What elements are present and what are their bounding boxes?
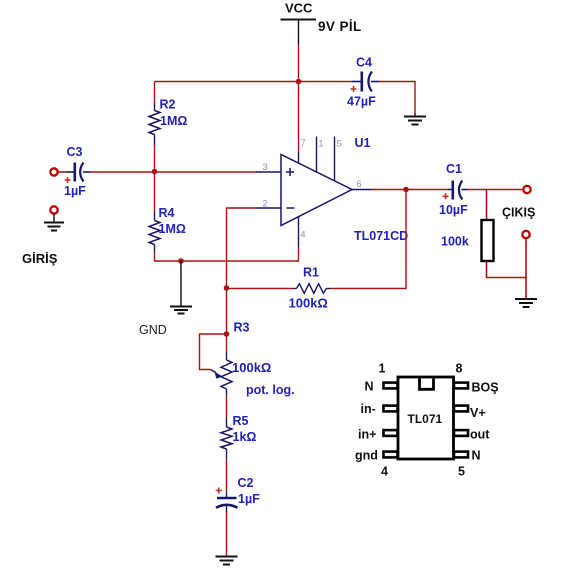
- capacitor C2: [216, 488, 238, 513]
- IC pin 7 pad: [454, 406, 468, 412]
- IC pin 2 pad: [384, 406, 398, 412]
- capacitor C1: [443, 181, 468, 200]
- svg-text:R4: R4: [159, 206, 175, 220]
- ground (output): [515, 299, 537, 307]
- svg-text:out: out: [470, 428, 490, 442]
- svg-text:BOŞ: BOŞ: [472, 381, 499, 395]
- svg-text:in-: in-: [361, 402, 376, 416]
- svg-text:TL071: TL071: [408, 412, 443, 426]
- node ground rail junction: [178, 258, 184, 264]
- wire R1 to output node: [330, 190, 406, 289]
- svg-text:R3: R3: [234, 321, 250, 335]
- resistor 100k load: [482, 220, 494, 261]
- ground (C2): [216, 557, 238, 565]
- svg-text:R5: R5: [233, 414, 249, 428]
- wire pin3: [155, 171, 257, 173]
- svg-text:6: 6: [357, 179, 362, 189]
- svg-text:TL071CD: TL071CD: [354, 229, 408, 243]
- resistor R2: [149, 103, 160, 145]
- svg-text:1kΩ: 1kΩ: [233, 430, 257, 444]
- input terminal 2: [50, 206, 57, 213]
- wire to output ground: [525, 278, 527, 300]
- IC pin 8 pad: [454, 383, 468, 389]
- wire R2 to input node: [154, 145, 156, 172]
- svg-text:10µF: 10µF: [439, 203, 468, 217]
- svg-text:C1: C1: [446, 162, 462, 176]
- svg-text:C4: C4: [356, 56, 372, 70]
- wire pin4 to ground rail: [298, 247, 300, 261]
- wire feedback node down to R3: [226, 288, 228, 334]
- wire pot wiper loop: [200, 334, 227, 370]
- IC pin 3 pad: [384, 430, 398, 436]
- svg-text:100k: 100k: [441, 235, 469, 249]
- ground (GND rail): [170, 261, 192, 314]
- wire C3 to input node: [90, 171, 155, 173]
- potentiometer R3: [211, 334, 233, 395]
- IC pin 4 pad: [384, 452, 398, 458]
- wire pot to R5: [226, 395, 228, 418]
- wire pin2 loop: [227, 208, 257, 288]
- power symbol VCC: [281, 1, 317, 45]
- svg-text:N: N: [365, 380, 374, 394]
- svg-text:pot. log.: pot. log.: [246, 383, 295, 397]
- svg-text:1: 1: [319, 139, 324, 149]
- svg-text:9V PİL: 9V PİL: [318, 19, 362, 34]
- svg-text:4: 4: [381, 465, 388, 479]
- svg-text:U1: U1: [355, 136, 371, 150]
- wire C4 to ground: [379, 82, 415, 114]
- svg-text:1µF: 1µF: [238, 492, 260, 506]
- node input junction: [152, 169, 158, 175]
- svg-text:R1: R1: [303, 266, 319, 280]
- svg-text:V+: V+: [470, 406, 486, 420]
- svg-text:in+: in+: [358, 428, 376, 442]
- svg-text:1: 1: [379, 362, 386, 376]
- node R3 top junction: [224, 331, 230, 337]
- wire R4 to ground rail: [155, 252, 300, 261]
- input terminal 1: [50, 168, 57, 175]
- output terminal 2: [522, 231, 529, 238]
- svg-text:100kΩ: 100kΩ: [289, 296, 328, 311]
- ground (C4): [404, 113, 426, 125]
- svg-text:C3: C3: [67, 145, 83, 159]
- resistor R4: [149, 212, 160, 252]
- svg-text:2: 2: [263, 199, 268, 209]
- svg-text:ÇIKIŞ: ÇIKIŞ: [502, 206, 535, 220]
- wire C2 to ground: [226, 512, 228, 557]
- IC pin 6 pad: [454, 430, 468, 436]
- resistor R1: [293, 284, 330, 294]
- capacitor C3: [65, 163, 91, 184]
- svg-text:5: 5: [337, 139, 342, 149]
- resistor R5: [221, 418, 232, 458]
- output terminal 1: [523, 186, 530, 193]
- wire pin6 output: [372, 189, 448, 191]
- IC pin 1 pad: [384, 383, 398, 389]
- node output junction: [403, 187, 409, 193]
- svg-text:4: 4: [301, 230, 306, 240]
- wire terminal to C3: [58, 171, 66, 173]
- svg-text:gnd: gnd: [355, 449, 378, 463]
- node junction VCC rail: [296, 79, 302, 85]
- svg-text:5: 5: [458, 465, 465, 479]
- wire rail to R2: [154, 82, 156, 104]
- wire top rail to C4: [155, 81, 353, 83]
- op-amp U1: [256, 137, 372, 248]
- svg-text:1MΩ: 1MΩ: [159, 222, 186, 236]
- wire VCC vertical: [298, 44, 300, 152]
- svg-text:GİRİŞ: GİRİŞ: [22, 251, 58, 266]
- svg-text:VCC: VCC: [285, 1, 313, 16]
- svg-text:100kΩ: 100kΩ: [232, 360, 271, 375]
- svg-text:3: 3: [263, 162, 268, 172]
- IC pin 5 pad: [454, 452, 468, 458]
- ground (input): [44, 214, 64, 231]
- wire load resistor to output terminal 2 and ground: [487, 239, 527, 278]
- svg-text:8: 8: [456, 362, 463, 376]
- capacitor C4: [351, 72, 380, 93]
- IC package TL071 DIP-8: [398, 377, 454, 459]
- svg-text:N: N: [472, 449, 481, 463]
- wire feedback node to R1: [227, 288, 294, 290]
- svg-text:1MΩ: 1MΩ: [160, 114, 187, 128]
- wire C1 to output terminal: [467, 189, 523, 191]
- svg-text:R2: R2: [160, 98, 176, 112]
- wire output to load resistor: [486, 190, 488, 221]
- wire R5 to C2: [226, 458, 228, 493]
- svg-text:7: 7: [301, 138, 306, 148]
- wire input node to R4: [154, 172, 156, 213]
- node feedback junction: [224, 285, 230, 291]
- svg-text:C2: C2: [238, 476, 254, 490]
- svg-text:1µF: 1µF: [64, 184, 86, 198]
- svg-text:GND: GND: [139, 323, 167, 337]
- svg-text:47µF: 47µF: [347, 95, 376, 109]
